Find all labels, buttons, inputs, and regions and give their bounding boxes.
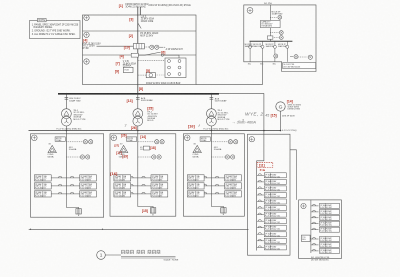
branch row 1 P-1 (34, 175, 96, 182)
panel P-3 enclosure (183, 134, 244, 216)
disconnect switch DS row1, label [3] (129, 16, 154, 23)
delta winding symbol P-1 (47, 144, 56, 159)
node balloon P-2 (111, 135, 117, 141)
branch row 2 P-1 (34, 183, 96, 190)
notes box (30, 18, 81, 38)
meter subpanel upper (270, 15, 281, 19)
meter set row2, label [2] (129, 32, 159, 38)
relay box with coil, label [5] (138, 69, 156, 78)
metering cubicle box with CT circles (138, 58, 186, 78)
transformer TR-3 labels (215, 97, 244, 122)
meter subpanel mid pair (267, 31, 283, 40)
branch breaker row 11 panel L-4 (257, 238, 287, 244)
branch circuit 1 subpanel (245, 41, 255, 65)
fuse box panel P-2 (143, 146, 149, 150)
node balloon P-3 (184, 135, 190, 141)
feeder label P-1 (69, 147, 77, 151)
panel P-1 enclosure (31, 134, 104, 217)
label [7] VCB text (116, 61, 137, 68)
branch breaker row 9 panel L-4 (257, 225, 287, 231)
branch row 1 P-2 (114, 175, 168, 182)
branch breaker row 8 panel L-4 (257, 219, 287, 224)
transformer TR-1 (62, 94, 72, 131)
feeder label P-2 (140, 147, 148, 151)
node balloon L-4 (249, 137, 254, 142)
transformer TR-2 labels [13][25] (127, 97, 159, 122)
wire N-1 riser (310, 200, 312, 253)
panel L-4 enclosure (248, 134, 291, 255)
generator labels [14] [15] (265, 99, 301, 117)
ground electrode P-1 (66, 196, 81, 217)
label [8] main bus (139, 87, 143, 91)
subpanel detail box (244, 3, 316, 71)
node balloon C (84, 59, 89, 64)
wire underground run (29, 229, 249, 230)
switchgear cubicle outline (83, 15, 197, 85)
breaker VCB box, label [9] (115, 67, 133, 73)
wire incoming 22.9kV feeder (138, 7, 141, 94)
transformer TR-2 (133, 94, 143, 131)
fuse box row3, label [4] (120, 53, 139, 58)
branch breaker row 10 panel L-4 (257, 232, 287, 237)
wire subpanel feed connection (196, 62, 263, 85)
branch breaker row 7 panel N-1 (311, 242, 340, 248)
bus subpanel (250, 40, 293, 42)
label [6] (161, 48, 183, 54)
label [11] dashed (257, 162, 273, 172)
branch breaker row 4 panel N-1 (311, 221, 340, 227)
branch circuit 3 subpanel (266, 41, 277, 65)
wattmeter pair P-3 upper (211, 140, 237, 144)
wattmeter pair row2 (144, 45, 165, 49)
label [1] incoming (119, 4, 191, 8)
bus main LV (58, 93, 264, 95)
branch breaker row 6 panel L-4 (257, 206, 287, 211)
branch breaker row 3 panel N-1 (311, 215, 340, 221)
branch breaker row 5 panel L-4 (257, 199, 287, 205)
panel N-1 enclosure (299, 200, 342, 259)
wire P-2 incoming drop (137, 131, 139, 197)
wattmeter pair P-1 upper (66, 140, 92, 144)
wire bus to panel L-4 (257, 93, 264, 250)
branch breaker row 4 panel L-4 (257, 193, 287, 198)
nameplate N-1 subpanel (283, 63, 316, 69)
branch breaker row 2 panel N-1 (311, 209, 340, 215)
branch breaker row 5 panel N-1 (311, 227, 340, 233)
ground electrode P-3 (211, 196, 226, 216)
node balloon B (84, 32, 89, 37)
branch row 1 P-3 (187, 175, 241, 182)
branch breaker row 12 panel L-4 (257, 245, 287, 250)
busway label text (146, 82, 181, 85)
label [4] left text (82, 39, 101, 50)
branch breaker row 1 panel N-1 (311, 203, 340, 209)
wire branch to MOF (97, 45, 134, 47)
title drawing name (97, 250, 179, 261)
breaker MCCB main P-2 (127, 137, 137, 142)
branch breaker row 2 panel L-4 (257, 179, 287, 184)
timer box N-1 (302, 235, 311, 241)
wire P-1 incoming drop (65, 131, 67, 197)
label [20] and pencil 7 at TR-2 foot (124, 123, 137, 130)
breaker MCCB main P-1 (55, 137, 65, 142)
branch row 3 P-3 (187, 191, 241, 198)
wattmeter pair P-2 upper (138, 140, 164, 144)
delta winding symbol P-3 (192, 144, 201, 159)
labels panel P-2 red marks (110, 133, 156, 213)
wire P-3 incoming drop (210, 131, 212, 197)
node balloon subpanel (247, 7, 253, 13)
branch breaker row 1 panel L-4 (257, 173, 287, 179)
node balloon A (84, 15, 89, 20)
branch circuit 4 subpanel (278, 41, 289, 65)
wire subpanel riser (270, 5, 283, 41)
pencil note wye (232, 112, 266, 125)
wire L-4 to N-1 (290, 150, 296, 200)
bus secondary distribution (29, 128, 297, 132)
delta winding symbol P-2 (119, 144, 128, 159)
disconnect switch blade row3 (138, 52, 179, 58)
transformer TR-3 (207, 94, 217, 131)
branch breaker row 7 panel L-4 (257, 212, 287, 218)
branch circuit 2 subpanel (253, 41, 264, 65)
node balloon N-1 (301, 203, 306, 208)
meter subpanel right (274, 54, 313, 59)
branch row 3 P-1 (34, 191, 96, 198)
wattmeter pair P-1 lower (66, 155, 89, 159)
breaker MCCB main P-3 (200, 137, 210, 142)
label [16] pencil f (188, 123, 201, 128)
branch breaker row 8 panel N-1 (311, 248, 340, 254)
branch breaker row 3 panel L-4 (257, 186, 287, 192)
branch breaker row 6 panel N-1 (311, 237, 340, 243)
label N-1 below (311, 257, 330, 261)
panel P-2 enclosure (110, 134, 176, 216)
nameplate box subpanel (261, 20, 281, 27)
generator G1 (276, 102, 285, 131)
branch row 3 P-2 (114, 191, 168, 198)
wattmeter pair P-3 lower (211, 155, 234, 159)
feeder label P-3 (214, 147, 222, 151)
branch row 2 P-2 (114, 183, 168, 190)
ground electrode P-2 (138, 196, 156, 216)
branch row 2 P-3 (187, 183, 241, 190)
node balloon P-1 (32, 135, 38, 141)
MOF box, label [10] (124, 44, 145, 50)
wattmeter pair P-2 lower (138, 155, 161, 159)
transformer TR-1 labels (69, 98, 86, 121)
